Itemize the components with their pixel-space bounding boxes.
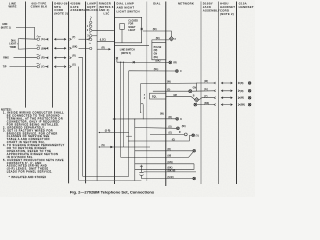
riser: V4 lead down [123,62,124,63]
column line: jack / handset cord [218,2,220,185]
svg-text:HANDSET: HANDSET [239,5,254,9]
wire: lamp lead down [121,29,123,43]
wire: tip lead [10,66,37,68]
svg-text:TRMR: TRMR [10,47,17,49]
svg-text:(R): (R) [240,91,243,93]
wire: equalizer to diamond B [166,96,195,99]
wire: trmr lead 1 to terminal G [20,38,37,41]
equalizer box [150,93,166,99]
riser: W lead down to loop [140,84,142,105]
svg-text:(GN): (GN) [168,162,173,164]
header: D10BY JACK ASSEMBLY [203,2,220,13]
svg-text:WIRE: WIRE [8,4,16,8]
svg-text:(G): (G) [41,39,45,41]
svg-text:(B): (B) [240,83,243,85]
handset cord row 3 (W) [199,97,240,100]
svg-text:LIGHT: LIGHT [9,44,16,46]
header: G15A HANDSET [239,2,254,9]
lamp eqpt block terminal strip [89,17,92,50]
pin numbers on block [87,26,89,41]
terminal 4 [89,35,92,38]
header: DIAL [153,1,161,5]
node B diamond terminal [194,98,199,103]
wire: mounting cord conductor 2 (BK) [45,47,89,49]
svg-text:(Y): (Y) [196,135,199,137]
handset cord row 4 (BK) [197,104,240,106]
terminal jack top [193,149,196,152]
line switch shelf line [115,45,150,47]
svg-text:(R): (R) [169,117,172,119]
column line: handset cord / handset [236,2,238,185]
capacitor in network [139,165,143,179]
svg-text:(W): (W) [173,95,177,97]
wire: bottom run joining V2 to V5 [83,175,129,177]
terminal R [177,127,180,130]
node F diamond terminal [169,37,173,41]
bottom row 4 from capacitor [144,171,196,173]
svg-text:(BK): (BK) [156,61,161,63]
svg-text:GRN: GRN [2,24,7,26]
wire: to terminal L2 [150,133,184,135]
terminal handset 4 [248,103,251,106]
svg-text:(R): (R) [41,58,44,60]
svg-text:(S-R): (S-R) [105,131,111,133]
svg-text:(S-W): (S-W) [168,177,174,179]
night light box text [128,20,138,32]
wire: mounting cord conductor 3 (R) [45,57,83,177]
contact X1 [116,57,118,59]
header: D4BU-29 MTG CORD (NOTE 2) [54,2,68,16]
labels on conn blk terminals [41,39,46,68]
header: RINGER (NOTES 3 AND 4) [99,2,114,16]
svg-text:(W): (W) [160,113,164,115]
column line: gate assembly / lamp eqpt block [85,2,87,184]
bottom row 0 to jack terminal [135,150,193,152]
wire: G lead to GN terminal [153,90,189,92]
header: 425BM GATE ASSEMBLY [70,2,87,13]
column line: lamp eqpt block / ringer [96,2,98,182]
column line: mtg cord / gate assembly [68,2,70,184]
column line: dial / network [165,2,167,187]
svg-text:L3C: L3C [104,12,110,16]
svg-text:(BK): (BK) [204,103,209,105]
header: DIAL LAMP AND NIGHT LIGHT SWITCH [117,2,140,14]
svg-text:(BK): (BK) [72,46,77,48]
wire: S-R stub [99,132,100,133]
svg-text:D10BY: D10BY [203,2,213,6]
svg-text:(G): (G) [167,89,171,91]
svg-text:PULSE: PULSE [154,47,162,49]
column line: network / jack assembly [200,2,202,185]
svg-text:(BK): (BK) [168,168,173,170]
svg-text:RING: RING [3,58,9,60]
riser: C lead down (V5) [128,71,130,177]
svg-text:(R): (R) [102,47,105,49]
wire: mounting cord conductor 1 (T) [45,38,90,40]
terminal C [176,70,179,73]
svg-text:TIP: TIP [3,67,7,69]
terminal G on conn blk [37,36,41,68]
header: H4DU HANDSET CORD (NOTE 2) [220,2,235,17]
svg-text:GN: GN [193,88,197,90]
brace for trmr leads [18,39,20,49]
wire: to terminal R [135,127,177,130]
svg-text:(W): (W) [154,50,158,52]
labels on cord conductors [72,37,77,66]
svg-text:(NOTE 2): (NOTE 2) [220,12,234,16]
svg-text:CONN BLK: CONN BLK [31,4,48,8]
terminal handset 3 [248,96,251,99]
label LINE SWITCH (NOTE 5) [120,50,135,55]
svg-text:(NOTE 2): (NOTE 2) [54,12,68,16]
svg-text:NETWORK: NETWORK [178,1,194,5]
terminal R on conn blk [37,56,40,59]
svg-text:FOR: FOR [128,24,133,26]
svg-text:LIGHT SWITCH: LIGHT SWITCH [117,10,140,14]
header: 605-TYPE CONN BLK [31,2,48,9]
column line: dial lamp switch / dial [146,2,148,182]
wire: to network C [129,70,176,72]
ringer lead 1 with label [97,40,114,42]
bottom row 1 diagonal to jack terminal [121,152,193,157]
terminal K [176,117,179,120]
node GN terminal [189,90,192,93]
ringer lead 2 with label [97,48,110,50]
wire: night light to diamond F [143,31,172,37]
svg-text:(W): (W) [168,156,172,158]
node GRN (NOTE 1) label [1,24,11,29]
svg-text:(Y): (Y) [41,67,44,69]
loop wire near dial column [141,103,144,119]
svg-text:LINE SWITCH: LINE SWITCH [120,50,135,52]
svg-text:ASSEMBLY: ASSEMBLY [203,9,220,13]
bottom row 5 to jack terminal [141,178,192,180]
svg-text:(S): (S) [102,145,105,147]
svg-text:(W): (W) [182,126,186,128]
label DIAL LIGHT TRMR [9,39,16,48]
terminal L2 [184,133,187,136]
node W terminal row4 [194,103,197,106]
terminal 6 [89,47,92,50]
header: LINE WIRE [8,2,16,9]
svg-text:(L3C): (L3C) [100,40,106,42]
svg-text:CORD: CORD [220,9,229,13]
svg-text:(BK): (BK) [240,105,245,107]
svg-text:BLOCK: BLOCK [87,8,98,12]
wire: ring lead [14,57,37,59]
terminal 5 [89,38,92,41]
night light box [115,17,142,43]
svg-text:(G): (G) [169,133,173,135]
svg-text:(BK-W): (BK-W) [168,170,176,172]
contact X on box edge [141,28,143,30]
svg-text:AND NIGHT: AND NIGHT [117,6,135,10]
terminal jack bottom [193,177,196,180]
wire: GRN lead to conn blk terminal G [16,27,37,39]
svg-text:(BL): (BL) [154,57,159,59]
svg-text:(W): (W) [240,98,244,100]
svg-text:LIGHT: LIGHT [128,30,135,32]
wire: block terminal 3 to ringer [92,29,114,31]
column line: ringer / dial lamp switch [114,2,116,185]
svg-text:DIAL LAMP: DIAL LAMP [117,2,134,6]
wire: row y141 to jack terminal Y [128,140,129,141]
wire: K lead with left arrow [113,118,176,120]
terminal 2 [89,25,92,28]
svg-text:CLOSED: CLOSED [128,20,138,22]
svg-text:(NOTE 5): (NOTE 5) [121,53,131,55]
svg-text:ASSEMBLY: ASSEMBLY [70,8,87,12]
svg-text:(W): (W) [156,38,160,40]
svg-text:(W): (W) [204,81,208,83]
handset cord row 2 (R) [192,90,240,92]
contact X2 on RR wire [133,61,135,63]
notes text block [1,107,65,178]
svg-text:(G): (G) [172,139,176,141]
svg-text:(W): (W) [167,82,171,84]
svg-text:(Y): (Y) [204,96,207,98]
wire: W lead to handset row1 riser [141,82,197,84]
wire: dial to diamond F [152,40,169,43]
header: NETWORK [178,1,194,5]
svg-text:HANDSET: HANDSET [220,5,235,9]
wire: S stub with arrow [99,146,100,147]
terminal 3 [89,29,92,32]
junction dot [120,62,121,63]
svg-text:* INSULATED AND STORED: * INSULATED AND STORED [9,176,47,179]
svg-text:GN: GN [154,54,158,56]
svg-text:(NOTE 1): (NOTE 1) [1,28,11,30]
svg-text:(BK): (BK) [41,48,46,50]
terminal RR [169,61,172,64]
night light lamp symbol [120,24,125,30]
terminal Y on conn blk [37,65,40,68]
wire: trmr lead 2 to terminal BK [20,47,37,50]
riser: switch lead down (V3) [120,62,122,157]
riser V6 [134,119,136,181]
svg-text:LEADS FOR PANEL SERVICE.: LEADS FOR PANEL SERVICE. [7,170,53,174]
dial box [152,43,166,60]
header: LAMP EQPT BLOCK [87,2,98,13]
bottom row 3 with riser join [135,164,194,170]
wire: mounting cord conductor 4 (G) [45,66,79,181]
svg-text:H4DU: H4DU [220,2,229,6]
svg-text:EQL: EQL [152,96,157,98]
riser V5 corner step [126,135,132,137]
wire: block terminal 4 stub [92,35,97,37]
column line: conn blk / D4BU mtg cord [52,2,54,108]
svg-text:RR: RR [173,62,177,64]
svg-text:(G): (G) [204,89,208,91]
terminal handset 1 [248,82,251,85]
column line: line wire / 605-type conn blk [25,2,27,108]
terminal handset 2 [248,89,251,92]
svg-text:(R): (R) [72,56,75,58]
wire: V1 bottom run [79,179,142,181]
svg-text:(R): (R) [168,149,171,151]
bottom row 2 [135,163,194,165]
terminal Y on jack [192,134,195,137]
svg-text:(T): (T) [72,37,75,39]
terminal 1 [90,17,91,21]
svg-text:(W): (W) [153,29,157,31]
handset cord row 1 (B) [196,82,239,91]
svg-text:NIGHT: NIGHT [128,27,136,29]
svg-text:JACK: JACK [203,5,212,9]
svg-text:DIAL: DIAL [11,39,17,42]
wire: to network RR [117,61,169,63]
terminal BK on conn blk [37,47,40,50]
svg-text:(G): (G) [72,65,76,67]
svg-text:DIAL: DIAL [153,1,161,5]
svg-text:(X): (X) [169,127,172,129]
svg-text:Fig. 2—2702BM Telephone Set, C: Fig. 2—2702BM Telephone Set, Connections [70,190,155,195]
